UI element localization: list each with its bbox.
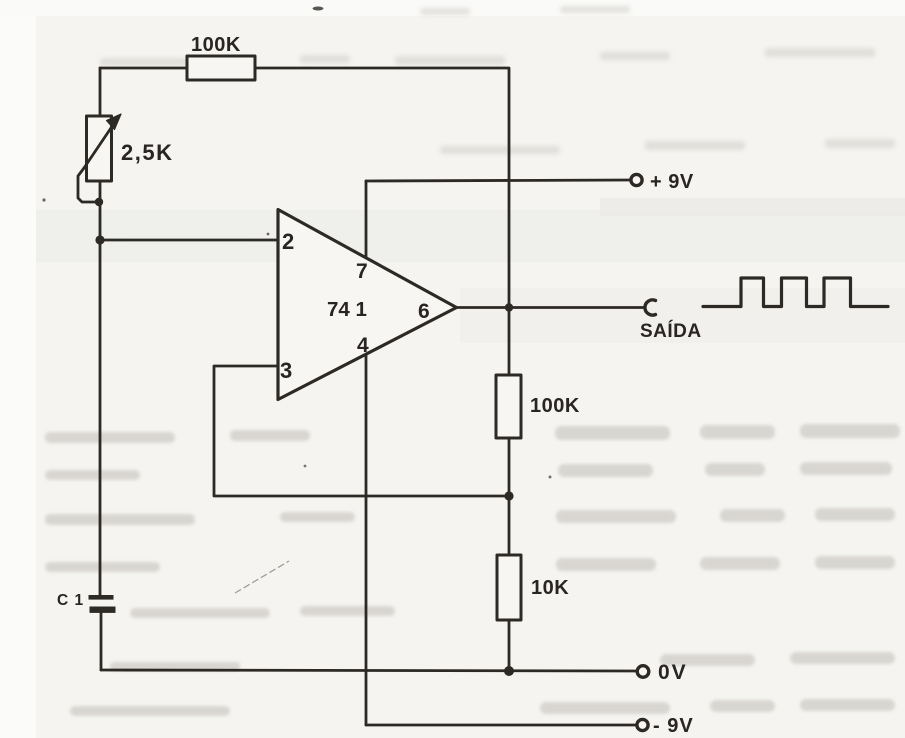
wire: top feedback rail from R1 to right corner, down to output bbox=[255, 68, 509, 305]
resistor R1 100K (horizontal) bbox=[187, 56, 255, 80]
svg-text:6: 6 bbox=[418, 300, 430, 323]
junction node: pin 2 branch bbox=[95, 235, 104, 244]
svg-text:74 1: 74 1 bbox=[327, 298, 367, 321]
svg-text:100K: 100K bbox=[191, 34, 241, 56]
svg-text:C 1: C 1 bbox=[57, 592, 84, 609]
wire: pin 7 riser to +9V rail bbox=[365, 181, 368, 257]
svg-text:0V: 0V bbox=[658, 661, 688, 684]
faint bleed-through text rows (back of page) bbox=[100, 6, 895, 154]
wire: top feedback rail from left vertical to R1 bbox=[100, 67, 187, 70]
capacitor C1 top plate bbox=[89, 595, 114, 600]
wire: inverting input (pin 2) bbox=[100, 239, 278, 242]
wire: left vertical from potentiometer down through C1 top bbox=[99, 181, 102, 595]
svg-text:2: 2 bbox=[282, 229, 294, 254]
wire: 0V rail bbox=[101, 670, 637, 671]
svg-text:100K: 100K bbox=[530, 395, 580, 417]
svg-text:+ 9V: + 9V bbox=[650, 171, 694, 193]
terminal 0V circle bbox=[637, 666, 649, 678]
potentiometer P1 arrow head bbox=[107, 114, 122, 130]
junction node: divider midpoint bbox=[504, 491, 513, 500]
svg-text:2,5K: 2,5K bbox=[121, 140, 173, 165]
capacitor C1 bottom plate bbox=[90, 607, 116, 613]
resistor R2 100K (vertical) bbox=[496, 375, 521, 438]
wire: output from op-amp apex to SAIDA terminal bbox=[457, 306, 644, 309]
svg-text:4: 4 bbox=[357, 334, 369, 357]
wire: +9V rail bbox=[366, 180, 631, 181]
wire: left vertical from top rail to potentiometer bbox=[99, 68, 102, 116]
svg-text:SAÍDA: SAÍDA bbox=[640, 320, 702, 342]
svg-text:3: 3 bbox=[280, 358, 292, 383]
wire: pin 4 drop to -9V rail bbox=[365, 355, 368, 725]
wire: R3 bottom to 0V node bbox=[508, 620, 511, 671]
wire: left vertical below C1 to 0V rail corner bbox=[100, 613, 103, 670]
wire: R2 bottom to R3 top through divider node bbox=[508, 438, 511, 555]
potentiometer P1 2,5K body bbox=[87, 116, 112, 181]
terminal +9V circle bbox=[631, 174, 642, 185]
speck marks bbox=[313, 7, 324, 11]
waveform: square wave output symbol bbox=[703, 278, 888, 307]
svg-text:10K: 10K bbox=[531, 577, 569, 599]
junction node: 0V rail bbox=[504, 666, 514, 676]
svg-text:- 9V: - 9V bbox=[653, 715, 694, 737]
wire: -9V rail bbox=[366, 724, 636, 727]
wire: non-inverting input (pin 3) to divider node bbox=[214, 366, 509, 496]
resistor R3 10K (vertical) bbox=[497, 555, 521, 620]
terminal SAIDA open hook bbox=[645, 300, 656, 315]
junction node: output / feedback bbox=[505, 303, 513, 311]
potentiometer P1 wiper-to-end link bbox=[78, 168, 97, 202]
terminal -9V circle bbox=[637, 719, 648, 730]
junction node: wiper tie bbox=[95, 198, 103, 206]
op-amp U1 741 triangle bbox=[278, 210, 457, 400]
svg-text:7: 7 bbox=[356, 260, 368, 283]
potentiometer P1 wiper arrow bbox=[84, 122, 115, 168]
wire: output node down to R2 bbox=[508, 308, 511, 376]
